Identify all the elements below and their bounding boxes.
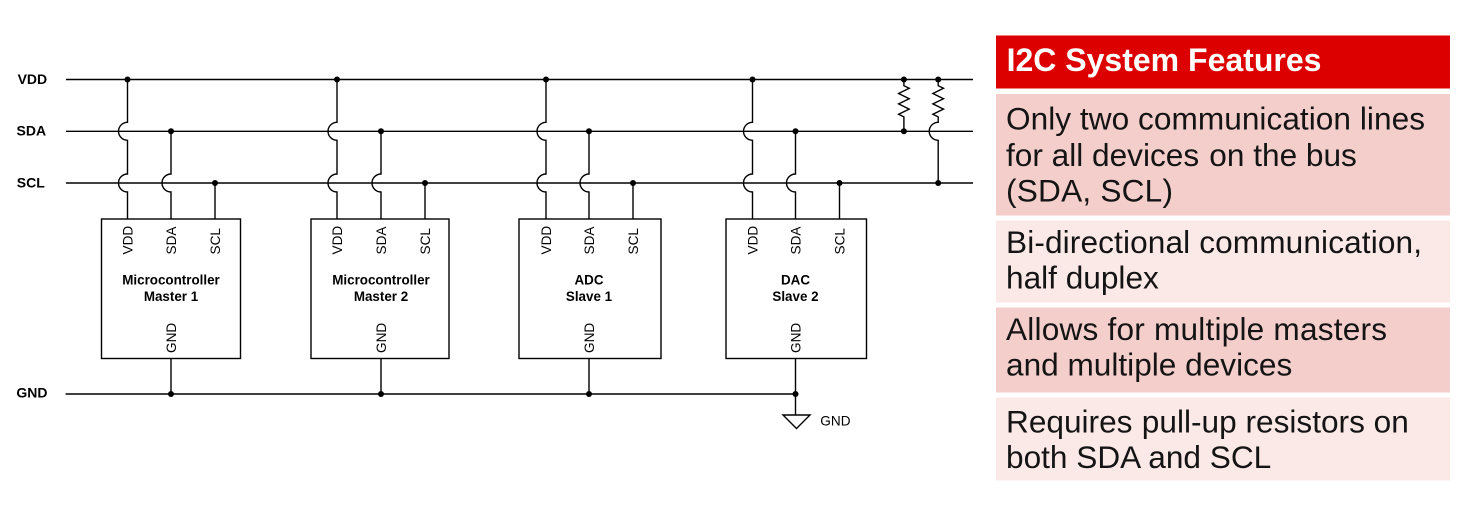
svg-text:SDA: SDA	[788, 226, 803, 255]
svg-text:VDD: VDD	[745, 226, 760, 255]
svg-text:Only two communication lines: Only two communication lines	[1006, 101, 1425, 137]
svg-text:Requires: Requires	[1006, 403, 1132, 439]
svg-text:GND: GND	[788, 323, 803, 353]
svg-text:Bi-directional communication,: Bi-directional communication,	[1006, 224, 1422, 260]
svg-text:Microcontroller: Microcontroller	[122, 273, 220, 288]
svg-text:(SDA, SCL): (SDA, SCL)	[1006, 172, 1173, 208]
svg-text:SDA: SDA	[582, 226, 597, 255]
svg-text:GND: GND	[582, 323, 597, 353]
svg-text:I2C System Features: I2C System Features	[1007, 42, 1322, 78]
svg-text:Allows for multiple masters: Allows for multiple masters	[1006, 311, 1387, 347]
svg-text:ADC: ADC	[574, 273, 603, 288]
svg-text:VDD: VDD	[18, 71, 48, 87]
svg-text:GND: GND	[374, 323, 389, 353]
svg-text:SCL: SCL	[626, 228, 641, 255]
svg-text:SDA: SDA	[164, 226, 179, 255]
svg-text:and multiple devices: and multiple devices	[1006, 347, 1292, 383]
svg-text:VDD: VDD	[539, 226, 554, 255]
svg-text:Slave 1: Slave 1	[566, 289, 613, 304]
svg-text:Master 2: Master 2	[354, 289, 408, 304]
svg-text:GND: GND	[820, 414, 850, 429]
svg-text:Master 1: Master 1	[144, 289, 199, 304]
svg-text:SCL: SCL	[17, 174, 45, 190]
svg-text:SCL: SCL	[832, 228, 847, 255]
svg-text:on the bus: on the bus	[1209, 137, 1357, 173]
svg-text:GND: GND	[16, 385, 47, 401]
svg-text:VDD: VDD	[330, 226, 345, 255]
svg-text:pull-up resistors on: pull-up resistors on	[1142, 403, 1409, 439]
svg-text:for all devices: for all devices	[1006, 137, 1199, 173]
svg-text:SDA: SDA	[17, 123, 47, 139]
svg-text:GND: GND	[164, 323, 179, 353]
svg-text:both SDA and SCL: both SDA and SCL	[1006, 439, 1271, 475]
svg-text:VDD: VDD	[120, 226, 135, 255]
svg-text:Slave 2: Slave 2	[772, 289, 818, 304]
svg-text:SCL: SCL	[418, 228, 433, 255]
svg-text:SDA: SDA	[374, 226, 389, 255]
svg-text:Microcontroller: Microcontroller	[332, 273, 430, 288]
svg-text:half duplex: half duplex	[1006, 259, 1159, 295]
svg-text:SCL: SCL	[208, 228, 223, 255]
svg-text:DAC: DAC	[781, 273, 810, 288]
